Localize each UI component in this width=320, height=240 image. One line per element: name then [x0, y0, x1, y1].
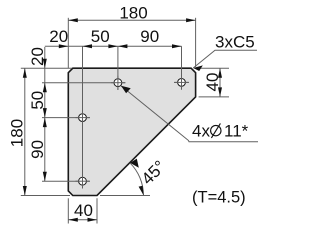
arc arrow bottom: [139, 186, 144, 196]
svg-text:40: 40: [74, 201, 93, 220]
centerline hole H1 vertical: [117, 46, 119, 90]
hole H3 cross: [76, 117, 90, 119]
extension lines bottom 40 dim: [67, 198, 69, 223]
centerline hole H2 horizontal: [174, 81, 189, 83]
arrow at x=181.5 pointing right: [172, 44, 182, 48]
hole H1 cross: [111, 82, 125, 84]
svg-text:90: 90: [140, 27, 159, 46]
extension line plate left edge (top dims): [67, 18, 69, 68]
hole H3: [79, 114, 87, 122]
arrows at y=117.6: [43, 108, 47, 118]
centerline top hole row: [42, 82, 126, 84]
dim 180 left line: [24, 68, 26, 195]
arrows at x=117.9: [108, 44, 118, 48]
centerline hole H3 horizontal: [42, 117, 90, 119]
centerline hole H2 vertical: [181, 46, 183, 89]
dim 180 top line: [68, 19, 195, 21]
dim 40 right line: [219, 68, 221, 97]
arrow at x=82.5 pointing left: [83, 44, 93, 48]
arrow at y=68.2 outside pointing down: [43, 59, 47, 69]
svg-text:20: 20: [28, 47, 47, 66]
hole H4: [79, 177, 87, 185]
svg-text:3xC5: 3xC5: [215, 33, 255, 52]
arc arrow top: [130, 159, 139, 168]
angle arc 45: [130, 163, 144, 196]
bottom edge extension for angle dim: [100, 195, 150, 197]
svg-text:50: 50: [28, 91, 47, 110]
svg-text:(T=4.5): (T=4.5): [192, 189, 246, 207]
hole H2: [178, 79, 186, 87]
centerline hole H4 horizontal: [42, 180, 90, 182]
svg-text:4x: 4x: [192, 122, 210, 141]
hole H2 cross: [175, 81, 189, 83]
extension line plate right edge (top dims): [195, 18, 197, 67]
leader 4x dia 11: [121, 86, 258, 142]
svg-text:50: 50: [91, 27, 110, 46]
arrow at y=82.7 pointing up: [43, 83, 47, 93]
svg-text:40: 40: [203, 73, 222, 92]
arrow at y=181.2 pointing down: [43, 172, 47, 182]
svg-text:20: 20: [49, 27, 68, 46]
diameter symbol: [211, 125, 221, 135]
svg-text:90: 90: [28, 140, 47, 159]
dim 40 bottom line: [68, 219, 97, 221]
dim chain top line: [45, 45, 182, 47]
centerline left hole column: [82, 46, 84, 188]
svg-text:11*: 11*: [224, 122, 249, 141]
arrow at x=68.3 outside pointing right: [59, 44, 69, 48]
leader 3xC5: [193, 50, 257, 68]
plate outline: [68, 68, 195, 195]
svg-text:180: 180: [7, 119, 26, 147]
svg-text:180: 180: [119, 3, 147, 22]
hole H4 cross: [76, 180, 90, 182]
extension lines right 40 dim: [199, 67, 229, 69]
hole H1: [114, 79, 122, 87]
extension line plate top edge (left dims): [21, 67, 72, 69]
extension line plate bottom edge (left dims): [21, 195, 70, 197]
dim chain left line: [44, 47, 46, 181]
